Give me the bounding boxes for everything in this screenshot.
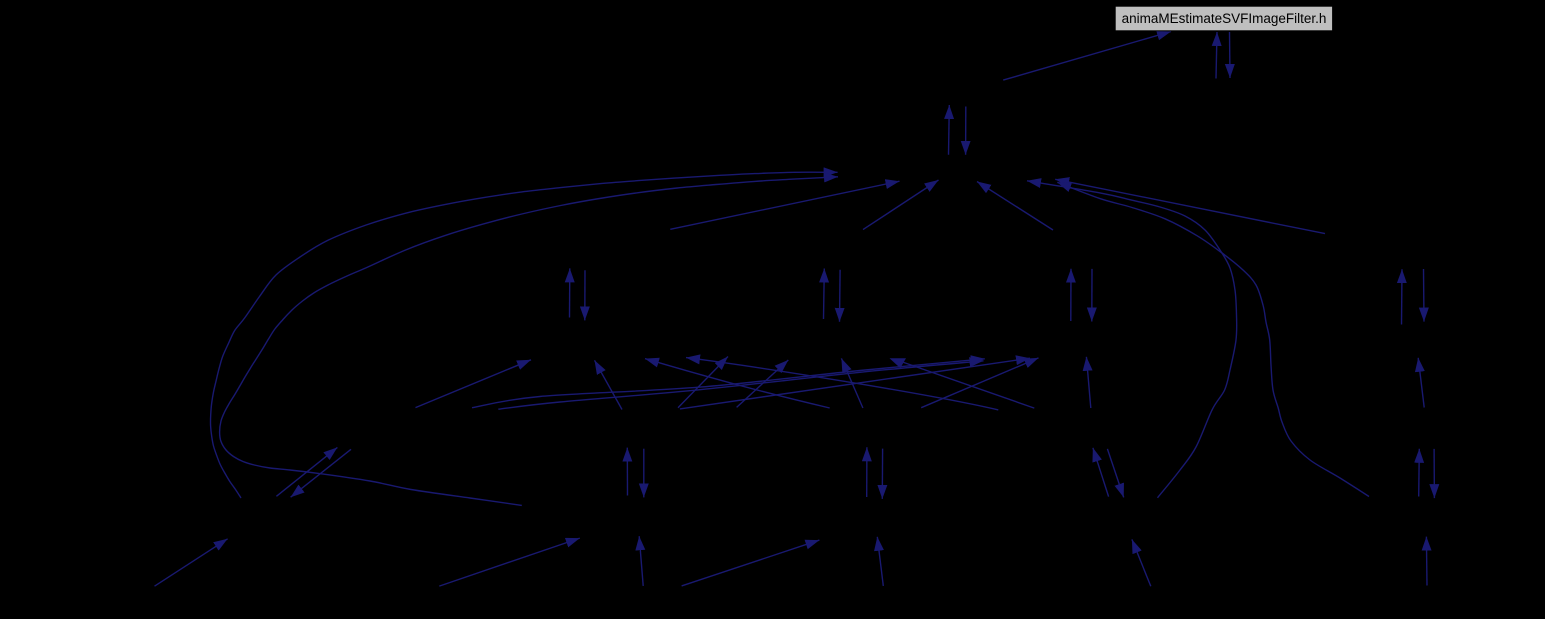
edge E3->E4 down (1091, 269, 1093, 322)
edge C3->C4 down (584, 270, 586, 320)
edge C3->hub (670, 181, 899, 229)
edge A5->C4 (416, 360, 532, 408)
edge D4->D3 up (823, 269, 826, 320)
edge D5->D4 steep2 (841, 358, 863, 408)
edge C5->E4 long (680, 358, 1030, 409)
edge C5->C6 down (643, 449, 645, 498)
edge D7->D6 up (877, 537, 883, 586)
edge target->hxx down (1229, 32, 1232, 78)
edge D3R->hub (977, 182, 1053, 231)
edge E4->E3 up (1070, 269, 1072, 321)
edge B5->D4 long1 (472, 359, 985, 408)
edge A5->BL6 down (291, 449, 351, 497)
edge F4->F3 up (1401, 269, 1404, 324)
svg-text:animaMEstimateSVFImageFilter.h: animaMEstimateSVFImageFilter.h (1122, 11, 1327, 26)
edge C7R->D6 (682, 540, 820, 586)
edge A1->target (1003, 32, 1171, 81)
edge hxx->target up (1216, 32, 1217, 79)
edge D5R->D4 left-edge curve (686, 358, 998, 410)
edge D3->D4 down (839, 270, 842, 322)
edge F5->F4 up (1418, 358, 1424, 408)
edge C7->C6 up (639, 536, 643, 586)
edge C4->C3 up (569, 268, 571, 317)
edge E5->E4 up (1086, 357, 1090, 408)
edge D3->hub (863, 180, 939, 230)
edge D5->C4 long (645, 359, 830, 408)
edge BL6->hub long curve (210, 172, 837, 498)
edge D4->E5 shaft (901, 362, 1034, 409)
edge F7->F6 up (1425, 537, 1428, 586)
edge B5->D4 long2 (498, 361, 983, 409)
edge F3->F4 down (1423, 269, 1426, 322)
edge F3->hub (1055, 179, 1325, 233)
edge F6->hub long curve (1057, 182, 1369, 496)
edge F6->F5 up (1418, 449, 1421, 497)
edge D6->D5 up (866, 447, 868, 497)
edge E5->E6 diag down (1107, 449, 1123, 498)
edge C6->hub long curve (220, 177, 838, 506)
edge D5->D4 (737, 360, 789, 407)
edge E6->E5 diag up (1093, 448, 1109, 497)
edge C5->C4 steep (595, 360, 623, 409)
edge A1->hub down (965, 107, 967, 155)
edge hub->A1 up (948, 105, 951, 155)
edge F5->F6 down (1433, 449, 1435, 498)
edge B7->C6 (439, 538, 580, 586)
edge C5->D4 steep (678, 357, 728, 408)
arrowhead D4 down (back-arrow of D4->E5 edge) (890, 358, 907, 368)
edge C6->C5 up (626, 448, 628, 496)
edge E6->hub long curve (1027, 181, 1237, 498)
edge D5->D6 down (881, 449, 883, 499)
edge A7->BL6 (155, 539, 228, 586)
edge E7->E6 (1132, 539, 1151, 586)
edge BL6->A5 up (276, 447, 337, 496)
node animaMEstimateSVFImageFilter.h (highlighted) (1115, 6, 1332, 31)
edge D5->E4 (921, 358, 1038, 408)
